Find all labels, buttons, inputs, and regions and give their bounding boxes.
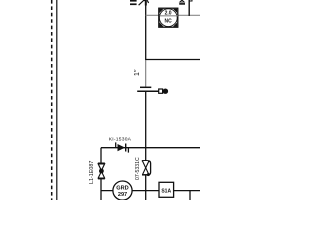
svg-text:L1-1E087: L1-1E087 xyxy=(89,161,95,184)
dashed boundary line xyxy=(51,0,53,200)
svg-text:2.0: 2.0 xyxy=(165,11,172,17)
contact bars (cropped, top) xyxy=(130,0,137,5)
wire W1 (horizontal y=59.5) xyxy=(146,59,200,61)
wire W3 (bottom horizontal y=190.6) xyxy=(101,190,200,192)
svg-text:NC: NC xyxy=(164,19,172,25)
svg-text:S1A: S1A xyxy=(161,188,171,194)
svg-text:GRD: GRD xyxy=(116,185,128,191)
bus wire (left vertical) xyxy=(56,0,58,200)
wire V1 (main vertical) xyxy=(145,4,147,60)
drop wire below W3 right xyxy=(189,191,191,200)
circuit breaker box 2.0 NC xyxy=(159,8,178,27)
drop wire from top to W_top xyxy=(189,0,192,16)
diode CR xyxy=(116,142,129,152)
svg-text:07-5331C: 07-5331C xyxy=(135,157,141,180)
fuse (crossed box) on V1 xyxy=(142,161,151,176)
ground stud (cropped, top right) xyxy=(179,0,185,5)
wire W2 (horizontal y=147.7) xyxy=(101,147,200,149)
connector pin pair xyxy=(159,89,168,94)
connector arrow (cropped, top) xyxy=(139,0,149,5)
svg-text:1′′: 1′′ xyxy=(134,69,141,76)
svg-text:KI-1530A: KI-1530A xyxy=(109,136,132,142)
ground designator GRD 297 xyxy=(113,181,132,200)
svg-text:297: 297 xyxy=(118,192,127,198)
terminal board S1A xyxy=(159,182,174,197)
wire V2 (vertical from W2 corner down) xyxy=(100,148,102,200)
wire W_top (gray horizontal y=15) xyxy=(146,14,200,16)
capacitor xyxy=(137,87,158,91)
surge suppressor (bowtie with dot) on V2 xyxy=(98,163,105,178)
